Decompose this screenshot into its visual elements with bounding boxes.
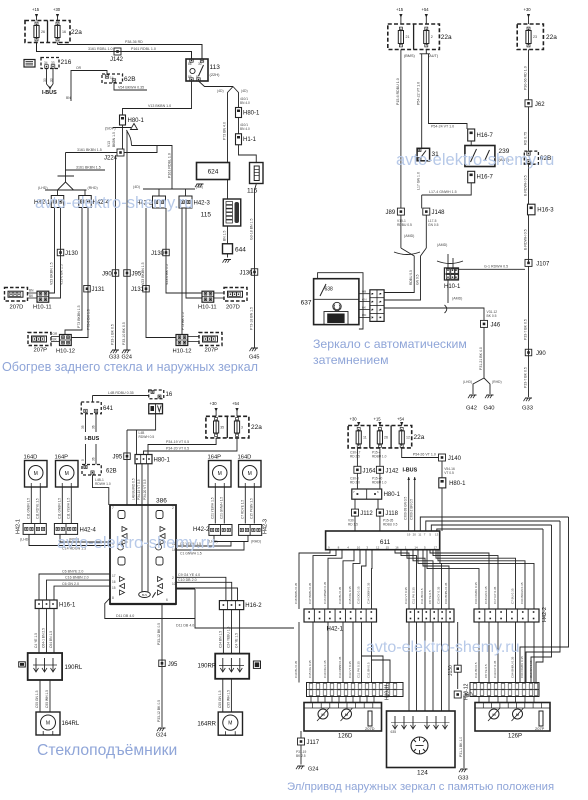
svg-text:207P: 207P <box>205 348 219 354</box>
svg-text:12: 12 <box>376 545 380 549</box>
svg-text:62B: 62B <box>106 469 117 475</box>
svg-text:+15: +15 <box>32 7 40 12</box>
svg-text:C30 DG 0.35: C30 DG 0.35 <box>323 660 327 678</box>
svg-text:P161 RDBL 1.0: P161 RDBL 1.0 <box>168 153 172 178</box>
svg-text:C24 BN 1.5: C24 BN 1.5 <box>218 631 222 648</box>
svg-text:C30 BU 0.35: C30 BU 0.35 <box>338 586 342 604</box>
svg-text:RDBU 1.0: RDBU 1.0 <box>372 455 387 459</box>
svg-text:C15 PKBN 1.5: C15 PKBN 1.5 <box>249 498 253 519</box>
svg-text:641: 641 <box>103 406 114 412</box>
svg-text:M: M <box>248 471 252 477</box>
svg-text:126D: 126D <box>338 734 353 740</box>
svg-text:BK 0.5: BK 0.5 <box>487 314 497 318</box>
svg-text:23: 23 <box>533 35 537 39</box>
svg-text:H16-7: H16-7 <box>477 133 494 139</box>
svg-text:V23 BKBN 1.5: V23 BKBN 1.5 <box>50 262 54 285</box>
svg-text:(4D): (4D) <box>241 89 248 93</box>
svg-text:C30 BU 0.35: C30 BU 0.35 <box>294 660 298 678</box>
svg-text:+30: +30 <box>524 7 532 12</box>
svg-text:C300-2 BN 0.5: C300-2 BN 0.5 <box>410 499 414 520</box>
svg-text:J46: J46 <box>491 322 501 328</box>
svg-text:P33-12 BK 0.5: P33-12 BK 0.5 <box>157 700 161 722</box>
svg-text:C31 BN 0.5: C31 BN 0.5 <box>420 588 424 604</box>
svg-text:C4 YE 1.5: C4 YE 1.5 <box>235 633 239 648</box>
svg-text:207D: 207D <box>365 726 375 731</box>
svg-text:C64 BN 1.5: C64 BN 1.5 <box>49 631 53 648</box>
svg-text:C6 BNYE 2.0: C6 BNYE 2.0 <box>62 570 83 574</box>
svg-text:J142: J142 <box>386 468 400 474</box>
svg-text:H16-3: H16-3 <box>537 208 554 214</box>
svg-text:35: 35 <box>220 426 224 430</box>
svg-text:C37 BKBU 0.35: C37 BKBU 0.35 <box>308 582 312 604</box>
svg-text:BK: BK <box>362 305 366 309</box>
svg-text:P31-1 BK 1.0: P31-1 BK 1.0 <box>459 737 463 757</box>
svg-text:RDBU 0.5: RDBU 0.5 <box>409 270 413 285</box>
svg-text:635: 635 <box>391 730 397 734</box>
svg-text:16: 16 <box>112 580 116 584</box>
svg-text:Зеркало с автоматическим: Зеркало с автоматическим <box>313 337 467 351</box>
svg-text:I-BUS: I-BUS <box>403 468 418 474</box>
svg-text:+30: +30 <box>210 401 218 406</box>
svg-text:C94 BNBU 0.35: C94 BNBU 0.35 <box>444 582 448 604</box>
svg-text:C34 DBBN 0.35: C34 DBBN 0.35 <box>338 656 342 678</box>
svg-text:C05 GN 1.5: C05 GN 1.5 <box>218 690 222 708</box>
svg-text:190RL: 190RL <box>65 665 83 671</box>
svg-text:GN: GN <box>362 297 367 301</box>
svg-text:16: 16 <box>166 392 173 398</box>
svg-text:P54-22 VT 1.0: P54-22 VT 1.0 <box>417 82 421 105</box>
svg-text:(4D): (4D) <box>133 185 140 189</box>
svg-text:VT 0.5: VT 0.5 <box>444 471 454 475</box>
svg-text:26: 26 <box>384 436 388 440</box>
svg-text:624: 624 <box>208 169 219 176</box>
svg-text:(LHD): (LHD) <box>20 538 30 542</box>
svg-text:22a: 22a <box>546 34 557 41</box>
svg-text:J131: J131 <box>131 287 145 293</box>
svg-text:+54: +54 <box>397 417 405 422</box>
svg-text:P73 BN 4.0: P73 BN 4.0 <box>223 122 227 140</box>
svg-text:26: 26 <box>41 30 45 34</box>
svg-text:62B: 62B <box>124 76 136 83</box>
svg-text:J95: J95 <box>113 455 123 461</box>
svg-text:J117: J117 <box>307 740 320 746</box>
svg-text:H10-11: H10-11 <box>33 305 52 311</box>
svg-text:H42-4: H42-4 <box>80 528 97 534</box>
svg-text:I-BUS: I-BUS <box>42 90 57 96</box>
svg-text:22a: 22a <box>251 424 262 431</box>
svg-text:C94 OGBU 0.35: C94 OGBU 0.35 <box>474 582 478 604</box>
svg-text:12: 12 <box>406 436 410 440</box>
svg-text:J142: J142 <box>110 57 124 63</box>
svg-text:BN: BN <box>29 289 34 293</box>
svg-text:22a: 22a <box>441 34 452 41</box>
svg-text:8: 8 <box>112 596 114 600</box>
svg-text:15: 15 <box>112 586 116 590</box>
svg-text:+15: +15 <box>396 7 404 12</box>
svg-text:C05 GN 1.5: C05 GN 1.5 <box>35 690 39 708</box>
svg-text:avto-elektro-shemy.ru: avto-elektro-shemy.ru <box>396 151 554 169</box>
svg-text:RDWH 0.5: RDWH 0.5 <box>139 435 155 439</box>
svg-text:C8 YE 0.5: C8 YE 0.5 <box>484 664 488 678</box>
svg-text:RD 0.75: RD 0.75 <box>524 132 528 145</box>
svg-text:C36 DBWD 0.35: C36 DBWD 0.35 <box>323 581 327 604</box>
svg-text:Эл/привод наружных зеркал с па: Эл/привод наружных зеркал с памятью поло… <box>287 781 554 793</box>
svg-text:H80-1: H80-1 <box>154 458 171 464</box>
svg-text:19: 19 <box>407 533 411 537</box>
svg-text:190RR: 190RR <box>198 664 217 670</box>
svg-text:30: 30 <box>49 78 53 82</box>
svg-text:86: 86 <box>188 62 192 66</box>
svg-text:P73-6 BK 1.5: P73-6 BK 1.5 <box>87 309 91 330</box>
svg-text:J90: J90 <box>102 272 112 278</box>
svg-text:затемнением: затемнением <box>313 353 389 367</box>
svg-text:15: 15 <box>386 545 390 549</box>
svg-text:C94 BNBU 0.35: C94 BNBU 0.35 <box>511 656 515 678</box>
svg-text:J148: J148 <box>432 210 446 216</box>
svg-text:(RHD): (RHD) <box>251 539 261 543</box>
svg-text:(22H): (22H) <box>210 72 221 77</box>
svg-text:C39 GY 0.35: C39 GY 0.35 <box>437 586 441 604</box>
svg-text:C7 BU 0.35: C7 BU 0.35 <box>511 588 515 604</box>
svg-text:C11 RDYE 1.5: C11 RDYE 1.5 <box>35 498 39 519</box>
svg-text:644: 644 <box>235 247 246 254</box>
svg-text:C11 GNBN 1.5: C11 GNBN 1.5 <box>57 498 61 519</box>
svg-text:164D: 164D <box>24 455 38 461</box>
svg-text:2: 2 <box>431 35 433 39</box>
svg-text:P31-21 BK 4.0: P31-21 BK 4.0 <box>479 347 483 370</box>
svg-text:P34-20 VT 0.5: P34-20 VT 0.5 <box>166 447 189 451</box>
svg-text:164P: 164P <box>55 455 69 461</box>
svg-text:C6 GN 2.0: C6 GN 2.0 <box>62 582 79 586</box>
svg-text:OR: OR <box>53 332 58 336</box>
svg-text:C10 DB 2.0: C10 DB 2.0 <box>178 578 197 582</box>
svg-text:216: 216 <box>61 59 72 66</box>
svg-text:G24: G24 <box>156 733 166 739</box>
svg-text:C95 WH 1.5: C95 WH 1.5 <box>45 690 49 708</box>
svg-text:(AMD): (AMD) <box>452 297 462 301</box>
svg-text:J164: J164 <box>363 468 377 474</box>
svg-text:C21 YEWH 1.5: C21 YEWH 1.5 <box>210 497 214 519</box>
svg-text:+30: +30 <box>53 7 61 12</box>
svg-text:H80-1: H80-1 <box>128 118 145 124</box>
svg-text:124: 124 <box>417 770 428 777</box>
svg-text:BN 4.0: BN 4.0 <box>240 101 250 105</box>
svg-text:M: M <box>65 471 69 477</box>
svg-text:115: 115 <box>201 212 212 219</box>
svg-text:10: 10 <box>357 545 361 549</box>
svg-text:OR: OR <box>76 66 82 70</box>
svg-text:P54-24 VT 1.0: P54-24 VT 1.0 <box>431 125 454 129</box>
svg-text:J89: J89 <box>386 210 396 216</box>
svg-text:BN: BN <box>66 96 71 100</box>
svg-text:+15: +15 <box>374 417 382 422</box>
svg-text:J112: J112 <box>360 511 373 517</box>
svg-text:C4 YE 1.5: C4 YE 1.5 <box>34 633 38 648</box>
svg-text:20: 20 <box>413 533 417 537</box>
svg-text:3: 3 <box>241 426 243 430</box>
svg-text:G33: G33 <box>522 406 533 412</box>
svg-text:H10-11: H10-11 <box>198 305 217 311</box>
svg-text:D11 DB 4.0: D11 DB 4.0 <box>176 624 194 628</box>
svg-text:H80-1: H80-1 <box>384 492 401 498</box>
svg-text:avto-elektro-shemy.ru: avto-elektro-shemy.ru <box>57 534 215 552</box>
svg-text:RD 2.0: RD 2.0 <box>350 481 360 485</box>
svg-text:RD 1.5: RD 1.5 <box>348 523 358 527</box>
svg-text:(AMD): (AMD) <box>404 234 414 238</box>
svg-text:P33-7 BK 0.5: P33-7 BK 0.5 <box>524 367 528 388</box>
svg-text:164P: 164P <box>208 455 222 461</box>
svg-text:164RL: 164RL <box>62 721 80 727</box>
svg-text:Стеклоподъёмники: Стеклоподъёмники <box>37 742 177 759</box>
svg-text:J130: J130 <box>448 665 454 676</box>
svg-text:36: 36 <box>92 425 96 429</box>
svg-text:V54 BKWH 0.35: V54 BKWH 0.35 <box>118 86 144 90</box>
svg-text:L4B RDBU 0.35: L4B RDBU 0.35 <box>108 391 134 395</box>
svg-text:H42-2: H42-2 <box>193 527 210 533</box>
svg-text:17: 17 <box>434 545 438 549</box>
svg-text:(4D): (4D) <box>217 89 224 93</box>
svg-text:126P: 126P <box>508 734 522 740</box>
svg-text:P33-1 BK 0.5: P33-1 BK 0.5 <box>111 324 115 345</box>
svg-text:RDBU 0.5: RDBU 0.5 <box>383 523 398 527</box>
svg-text:C33 VT 0.35: C33 VT 0.35 <box>348 661 352 678</box>
svg-text:H80-1: H80-1 <box>243 111 260 117</box>
svg-text:(RHD): (RHD) <box>492 380 502 384</box>
svg-text:22a: 22a <box>71 29 82 36</box>
svg-text:C95 WH 1.5: C95 WH 1.5 <box>226 690 230 708</box>
svg-text:(BMS): (BMS) <box>404 54 415 58</box>
svg-text:H42-3: H42-3 <box>263 519 269 534</box>
svg-text:M: M <box>34 471 38 477</box>
svg-text:(4D): (4D) <box>196 185 203 189</box>
svg-text:J130: J130 <box>65 251 79 257</box>
svg-text:35: 35 <box>81 425 85 429</box>
svg-text:11: 11 <box>363 436 367 440</box>
svg-text:avto-elektro-shemy.ru: avto-elektro-shemy.ru <box>366 639 520 656</box>
svg-text:386: 386 <box>156 498 167 505</box>
svg-text:GN 0.5: GN 0.5 <box>416 274 420 285</box>
svg-text:637: 637 <box>301 300 312 307</box>
svg-text:H10-11: H10-11 <box>385 684 391 700</box>
svg-text:C9 G4 YE 4.0: C9 G4 YE 4.0 <box>178 573 200 577</box>
svg-text:3161 BKBN 1.5: 3161 BKBN 1.5 <box>77 148 102 152</box>
svg-text:30: 30 <box>43 78 47 82</box>
svg-text:2: 2 <box>172 576 174 580</box>
svg-text:P33-12 BK 0.5: P33-12 BK 0.5 <box>157 623 161 645</box>
svg-text:C11 GNBN 1.5: C11 GNBN 1.5 <box>26 498 30 519</box>
svg-text:M: M <box>218 471 222 477</box>
svg-text:207D: 207D <box>10 305 24 311</box>
svg-text:V13 BKBN 1.0: V13 BKBN 1.0 <box>148 104 171 108</box>
svg-text:85: 85 <box>188 75 192 79</box>
svg-text:BKBN 1.5: BKBN 1.5 <box>112 132 116 147</box>
svg-text:V23-6 BK 1.5: V23-6 BK 1.5 <box>60 264 64 285</box>
svg-text:J131: J131 <box>92 287 106 293</box>
svg-text:22a: 22a <box>414 434 425 441</box>
svg-text:BN 4.0: BN 4.0 <box>240 127 250 131</box>
svg-text:P34-19 VT 0.5: P34-19 VT 0.5 <box>166 440 189 444</box>
svg-text:BK 2.5: BK 2.5 <box>296 754 306 758</box>
svg-text:D11 DB 4.0: D11 DB 4.0 <box>116 614 134 618</box>
svg-text:C31 BN 0.5: C31 BN 0.5 <box>474 662 478 678</box>
svg-text:G-1 RDWH 0.5: G-1 RDWH 0.5 <box>484 265 508 269</box>
svg-text:C16 BNBN 2.0: C16 BNBN 2.0 <box>65 576 89 580</box>
svg-text:J90: J90 <box>536 351 546 357</box>
svg-text:H1-1: H1-1 <box>243 137 257 143</box>
svg-text:J130: J130 <box>151 251 165 257</box>
svg-text:J95: J95 <box>132 272 142 278</box>
svg-text:P33-7 BK 0.5: P33-7 BK 0.5 <box>524 319 528 340</box>
svg-text:(AMD): (AMD) <box>437 243 447 247</box>
svg-text:P34-20 VT 0.5: P34-20 VT 0.5 <box>143 479 147 500</box>
svg-text:RDBU 1.0: RDBU 1.0 <box>372 481 387 485</box>
svg-text:C31 BN 0.5: C31 BN 0.5 <box>367 662 371 678</box>
svg-text:C11 YEWH 1.5: C11 YEWH 1.5 <box>66 497 70 519</box>
svg-text:H42-3: H42-3 <box>194 201 211 207</box>
svg-text:P33-10 BK 0.5: P33-10 BK 0.5 <box>122 322 126 345</box>
svg-text:GN 0.5: GN 0.5 <box>428 223 439 227</box>
svg-text:207P: 207P <box>34 348 48 354</box>
svg-text:C8 YE 0.5: C8 YE 0.5 <box>428 590 432 604</box>
svg-text:BUS: BUS <box>142 593 148 597</box>
svg-text:115: 115 <box>247 188 258 195</box>
svg-text:M: M <box>228 721 232 727</box>
svg-text:13: 13 <box>435 533 439 537</box>
svg-text:14: 14 <box>414 545 418 549</box>
svg-text:RDWH 1.0: RDWH 1.0 <box>95 482 111 486</box>
svg-text:207P: 207P <box>535 726 545 731</box>
svg-text:C18 GN 0.35: C18 GN 0.35 <box>529 660 533 678</box>
svg-text:17: 17 <box>112 574 116 578</box>
svg-text:H42-2: H42-2 <box>542 607 548 622</box>
svg-text:C35 OG 0.35: C35 OG 0.35 <box>308 660 312 678</box>
svg-text:L4B BUWD 0.5: L4B BUWD 0.5 <box>132 478 136 500</box>
svg-text:avto-elektro-shemy.ru: avto-elektro-shemy.ru <box>35 194 193 212</box>
svg-text:H16-1: H16-1 <box>59 603 76 609</box>
svg-text:36: 36 <box>92 457 96 461</box>
svg-text:34: 34 <box>44 61 48 65</box>
svg-text:C11 PK 0.35: C11 PK 0.35 <box>412 587 416 604</box>
svg-text:C1 GNWH 1.5: C1 GNWH 1.5 <box>180 552 202 556</box>
svg-text:P15-6 RDBU 1.0: P15-6 RDBU 1.0 <box>396 78 400 105</box>
svg-text:C17 GY 0.35: C17 GY 0.35 <box>493 586 497 604</box>
svg-text:C64-1 BN 2.5: C64-1 BN 2.5 <box>42 628 46 648</box>
svg-text:G3-18 BN 1.5: G3-18 BN 1.5 <box>250 219 254 240</box>
svg-text:C94 OGBU 0.35: C94 OGBU 0.35 <box>520 656 524 678</box>
svg-text:C38 BKBU 0.35: C38 BKBU 0.35 <box>294 582 298 604</box>
svg-text:14: 14 <box>110 76 114 80</box>
svg-text:C35 OG 0.35: C35 OG 0.35 <box>348 586 352 604</box>
svg-text:B RDWH 0.5: B RDWH 0.5 <box>524 175 528 196</box>
svg-text:RD 2.5: RD 2.5 <box>350 455 360 459</box>
svg-text:BN 1.5: BN 1.5 <box>223 231 227 241</box>
svg-text:30: 30 <box>198 62 202 66</box>
svg-text:P34-19 VT 0.5: P34-19 VT 0.5 <box>137 479 141 500</box>
svg-text:164D: 164D <box>238 455 252 461</box>
svg-text:10: 10 <box>172 582 176 586</box>
svg-text:Обогрев заднего стекла и наруж: Обогрев заднего стекла и наружных зеркал <box>2 360 258 374</box>
svg-text:P73 BKBN 1.5: P73 BKBN 1.5 <box>77 305 81 328</box>
svg-text:J107: J107 <box>536 261 550 267</box>
svg-text:J118: J118 <box>385 511 398 517</box>
svg-text:16: 16 <box>62 30 66 34</box>
svg-text:P73-18 BN 1.5: P73-18 BN 1.5 <box>250 307 254 330</box>
svg-text:H16-7: H16-7 <box>477 175 494 181</box>
svg-text:V13: V13 <box>107 141 111 147</box>
svg-text:B RDWH 0.5: B RDWH 0.5 <box>524 229 528 250</box>
svg-text:+54: +54 <box>422 7 430 12</box>
svg-text:C18 GN 0.35: C18 GN 0.35 <box>484 586 488 604</box>
svg-text:H42-1: H42-1 <box>327 627 344 633</box>
svg-text:V23-6 BK 1.5: V23-6 BK 1.5 <box>165 264 169 285</box>
svg-text:G40: G40 <box>484 406 495 412</box>
svg-text:P30-66 RD 1.0: P30-66 RD 1.0 <box>524 66 528 90</box>
svg-text:33: 33 <box>51 61 55 65</box>
svg-text:C34 DBBN 0.35: C34 DBBN 0.35 <box>367 582 371 604</box>
svg-text:C30 DG 0.35: C30 DG 0.35 <box>357 586 361 604</box>
svg-text:(AUT): (AUT) <box>428 54 439 58</box>
svg-text:113: 113 <box>210 64 221 71</box>
svg-text:5: 5 <box>81 459 85 461</box>
svg-text:C94 BKGN 0.35: C94 BKGN 0.35 <box>520 582 524 604</box>
svg-text:C39 GY 0.35: C39 GY 0.35 <box>493 660 497 678</box>
svg-text:C24 YEBU 1.5: C24 YEBU 1.5 <box>227 626 231 648</box>
svg-text:+30: +30 <box>350 417 358 422</box>
svg-text:H10-12: H10-12 <box>56 349 75 355</box>
svg-text:207D: 207D <box>226 305 240 311</box>
svg-text:C21 GNWH 1.5: C21 GNWH 1.5 <box>219 497 223 519</box>
svg-text:RDBU 0.5: RDBU 0.5 <box>397 223 412 227</box>
svg-text:I-BUS: I-BUS <box>85 436 100 442</box>
svg-text:638: 638 <box>325 287 334 293</box>
svg-text:3161 RDBL 1.0: 3161 RDBL 1.0 <box>88 47 112 51</box>
svg-text:C11 PK 0.35: C11 PK 0.35 <box>357 661 361 678</box>
svg-text:H10-12: H10-12 <box>173 349 192 355</box>
svg-text:V23 BKBN 1.5: V23 BKBN 1.5 <box>141 262 145 285</box>
svg-text:J140: J140 <box>448 456 462 462</box>
svg-text:6: 6 <box>166 598 168 602</box>
svg-text:M: M <box>46 721 50 727</box>
svg-text:H10-1: H10-1 <box>444 284 461 290</box>
svg-text:C7 RDYE 1.5: C7 RDYE 1.5 <box>240 500 244 519</box>
svg-text:P161 RDBL 1.0: P161 RDBL 1.0 <box>131 47 156 51</box>
svg-text:L17 GN 1.0: L17 GN 1.0 <box>417 172 421 190</box>
svg-text:J136: J136 <box>240 271 254 277</box>
svg-text:164RR: 164RR <box>197 722 216 728</box>
svg-text:16: 16 <box>395 545 399 549</box>
svg-text:C33 VT 0.35: C33 VT 0.35 <box>404 587 408 604</box>
svg-text:C300-38 GN 0.5: C300-38 GN 0.5 <box>404 497 408 520</box>
svg-text:(LHD): (LHD) <box>38 186 48 190</box>
svg-text:2: 2 <box>172 506 174 510</box>
svg-text:L17-4 GNWH 1.5: L17-4 GNWH 1.5 <box>429 190 457 194</box>
svg-text:(RHD): (RHD) <box>88 186 98 190</box>
svg-text:G24: G24 <box>308 767 318 773</box>
svg-text:3161 BKBN 1.5: 3161 BKBN 1.5 <box>76 166 101 170</box>
svg-text:11: 11 <box>418 533 421 537</box>
svg-text:H16-2: H16-2 <box>245 603 262 609</box>
svg-text:H42-1: H42-1 <box>16 519 22 534</box>
svg-text:DB: DB <box>362 290 366 294</box>
svg-text:21: 21 <box>406 35 410 39</box>
svg-text:7: 7 <box>112 506 114 510</box>
svg-text:G42: G42 <box>466 406 477 412</box>
svg-text:P73 BK 1.5: P73 BK 1.5 <box>181 312 185 330</box>
svg-text:(LHD): (LHD) <box>463 380 472 384</box>
svg-text:J95: J95 <box>168 662 178 668</box>
svg-text:H80-1: H80-1 <box>449 481 466 487</box>
svg-text:J62: J62 <box>535 102 545 108</box>
